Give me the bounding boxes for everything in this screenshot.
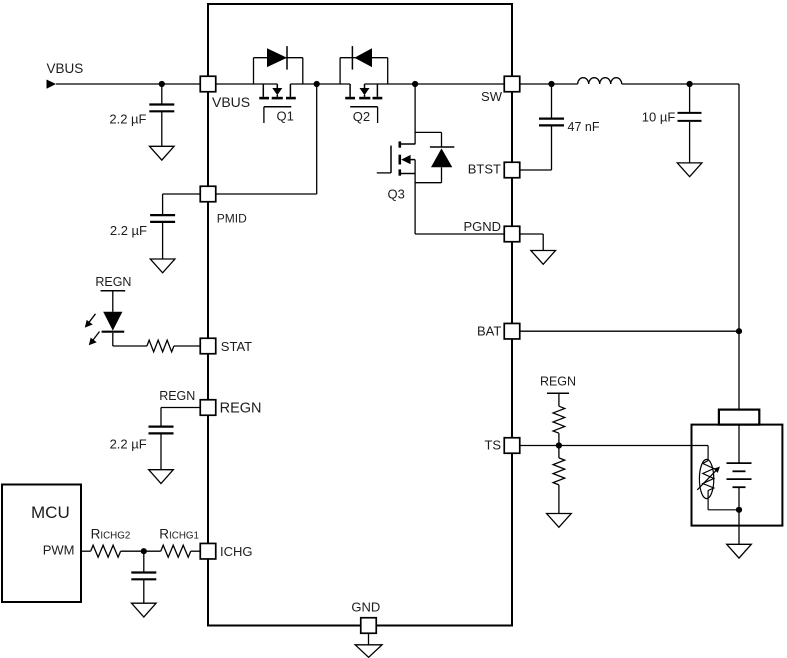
junction TS divider [556, 442, 562, 448]
svg-text:GND: GND [351, 600, 380, 615]
junction BTST cap [548, 81, 554, 87]
wire RICHG2 to RICHG1 [121, 550, 161, 552]
svg-text:RICHG2: RICHG2 [91, 527, 131, 542]
VBUS input arrow [47, 80, 57, 89]
capacitor C6 10uF [678, 113, 702, 121]
wire PGND pin to ground [520, 233, 543, 235]
ground (C2) [150, 259, 175, 273]
LED D1 [103, 312, 122, 331]
svg-text:REGN: REGN [159, 389, 195, 403]
resistor R1 (STAT) [147, 340, 174, 352]
ground (RT2) [547, 514, 572, 528]
svg-text:PMID: PMID [217, 212, 247, 226]
wire TS node to RT2 [558, 446, 560, 458]
svg-text:SW: SW [481, 89, 503, 104]
svg-text:Q1: Q1 [277, 109, 294, 124]
ground (C3) [149, 470, 174, 484]
wire C2 to ground [162, 222, 164, 259]
wire PMID pin to C2 [163, 193, 201, 195]
svg-text:RICHG1: RICHG1 [159, 527, 199, 542]
resistor RT2 (TS pull-down) [553, 458, 565, 485]
wire TS pin to thermistor [520, 445, 708, 447]
wire Q3 source to PGND pin [415, 233, 504, 235]
wire output node to C6 [689, 84, 691, 112]
pin TS [504, 438, 520, 454]
wire REGN pin to C3 [161, 407, 200, 409]
svg-text:REGN: REGN [95, 275, 131, 289]
thermistor RT (in pack) [697, 446, 739, 510]
wire REGN bar to RT1 [558, 393, 560, 406]
transistor Q2 [345, 84, 382, 123]
svg-text:Q2: Q2 [353, 109, 370, 124]
svg-text:ICHG: ICHG [220, 544, 253, 559]
junction output cap [687, 81, 693, 87]
pin BAT [504, 323, 520, 339]
wire SW pin to inductor [520, 83, 578, 85]
thermistor arrow head [714, 467, 721, 473]
wire battery negative to ground [738, 510, 740, 545]
capacitor C1 2.2uF [149, 105, 174, 112]
svg-text:47 nF: 47 nF [568, 120, 600, 134]
wire PMID pin to riser [216, 193, 317, 195]
wire Q2 to SW pin [365, 83, 505, 85]
ground (battery) [727, 544, 752, 558]
wire junction to C4 [143, 551, 145, 572]
pin STAT [200, 338, 216, 354]
svg-text:VBUS: VBUS [47, 61, 84, 76]
wire LED cathode to resistor [112, 333, 114, 346]
pin VBUS [200, 76, 216, 92]
body diode of Q3 [415, 132, 454, 182]
ground (PGND) [531, 251, 556, 265]
junction VBUS input cap [159, 81, 165, 87]
pin ICHG [200, 543, 216, 559]
ground (C4) [132, 603, 157, 617]
LED emission arrow 2 [92, 332, 100, 343]
wire C3 to ground [160, 433, 162, 470]
junction BAT node [736, 328, 742, 334]
inductor L1 [578, 78, 622, 84]
wire C4 to ground [143, 579, 145, 603]
ground (GND pin) [355, 645, 382, 658]
wire BAT pin to battery [520, 330, 739, 332]
wire junction to C1 [161, 84, 163, 105]
pin REGN [200, 400, 216, 416]
svg-text:10 µF: 10 µF [642, 109, 676, 124]
svg-text:STAT: STAT [221, 339, 252, 354]
capacitor C2 2.2uF [150, 215, 175, 222]
junction Q3 drain node [412, 81, 418, 87]
svg-text:2.2 µF: 2.2 µF [109, 112, 146, 127]
wire C5 to BTST pin [551, 125, 553, 170]
capacitor C5 47nF [539, 119, 564, 126]
pin GND [361, 618, 377, 634]
wire RT2 to ground [558, 485, 560, 514]
junction PMID riser on VBUS-Q2 node [314, 81, 320, 87]
ground (C1) [150, 146, 175, 160]
REGN rail bar (TS) [547, 392, 569, 394]
svg-text:REGN: REGN [220, 401, 262, 417]
wire RICHG1 to ICHG pin [191, 550, 201, 552]
body diode of Q1 [254, 46, 303, 84]
pin PGND [504, 226, 520, 242]
svg-text:VBUS: VBUS [212, 94, 250, 110]
svg-text:Q3: Q3 [388, 187, 405, 202]
svg-text:REGN: REGN [540, 375, 576, 389]
wire Q1 to Q2 [290, 83, 350, 85]
wire PWM to RICHG2 [82, 550, 91, 552]
ground (C6) [677, 163, 702, 177]
wire VBUS input to VBUS pin [56, 83, 200, 85]
capacitor C3 2.2uF [149, 427, 174, 434]
junction ICHG filter [141, 548, 147, 554]
svg-text:PGND: PGND [463, 219, 501, 234]
wire GND pin to ground [368, 633, 370, 645]
battery pack box [692, 425, 783, 526]
wire PMID riser vertical [316, 84, 318, 194]
pin BTST [504, 162, 520, 178]
wire inductor to output node [622, 83, 739, 85]
battery pack terminal block [719, 410, 759, 425]
capacitor C4 [131, 573, 156, 580]
wire C6 to ground [689, 122, 691, 163]
battery cell BT1 [727, 425, 752, 510]
LED emission arrow 1 [88, 314, 96, 325]
MCU block [2, 485, 81, 603]
svg-text:2.2 µF: 2.2 µF [110, 223, 147, 238]
resistor RICHG1 [161, 545, 191, 557]
wire resistor to STAT pin [174, 345, 200, 347]
IC U1 outline [208, 4, 512, 626]
svg-text:MCU: MCU [31, 503, 70, 522]
wire SW node to C5 [551, 84, 553, 119]
svg-text:BAT: BAT [477, 324, 501, 339]
svg-text:BTST: BTST [468, 162, 501, 177]
resistor RT1 (TS pull-up) [553, 406, 565, 433]
wire output node down to battery [738, 84, 740, 410]
pin SW [504, 76, 520, 92]
svg-text:TS: TS [484, 438, 501, 453]
wire RT1 to TS node [558, 433, 560, 445]
pin PMID [200, 186, 216, 202]
wire VBUS pin to Q1 [216, 83, 277, 85]
svg-text:PWM: PWM [43, 543, 75, 558]
transistor Q1 [259, 84, 296, 123]
body diode of Q2 [340, 46, 388, 84]
REGN rail bar (LED) [101, 290, 126, 292]
resistor RICHG2 [91, 545, 121, 557]
wire C1 to ground [161, 111, 163, 146]
junction battery negative [736, 507, 742, 513]
wire REGN bar to LED [112, 291, 114, 312]
svg-text:2.2 µF: 2.2 µF [110, 437, 147, 452]
transistor Q3 [377, 84, 415, 234]
